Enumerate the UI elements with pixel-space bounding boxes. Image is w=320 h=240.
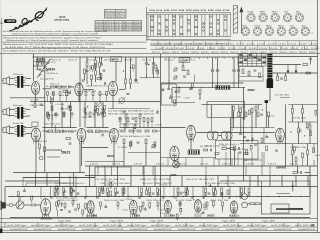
capacitor C5 (105, 82, 106, 85)
junction avc25 (87, 106, 88, 107)
wire tube pin stub (131, 213, 133, 217)
chart column 5 line b (182, 14, 184, 36)
junction heater (65, 196, 66, 197)
resistor lv2 (64, 203, 66, 207)
chart column 4 point 2 (173, 19, 175, 21)
wire y152 segment (128, 152, 160, 154)
svg-text:6063: 6063 (171, 173, 177, 177)
junction avc23 (98, 108, 99, 109)
wire tube pin stub mid (188, 138, 190, 142)
resistor R67 (123, 189, 125, 194)
svg-text:0,5-12pF 6k: 0,5-12pF 6k (40, 79, 54, 81)
svg-text:Zwischenfreq: Zwischenfreq (105, 13, 115, 16)
svg-text:Ger.Nr 2035 Type: Ger.Nr 2035 Type (55, 224, 74, 227)
wire bot10 mid lead (157, 193, 159, 194)
table tubes divider 2 (114, 21, 116, 31)
wire R52 down (255, 111, 257, 128)
chart column 9 point 3 (210, 23, 212, 25)
resistor osc3 (94, 63, 96, 68)
wire botl6 (179, 206, 181, 210)
chart column 1 point 2 (151, 19, 153, 21)
capacitor C31 (260, 114, 263, 115)
svg-text:Schaltbild Klein-Super 43 W S: Schaltbild Klein-Super 43 W Stand Oktobe… (3, 50, 112, 53)
capacitor C15 (97, 114, 100, 115)
resistor R27 (147, 118, 149, 123)
wire R36 down (251, 113, 253, 133)
wire rdet7 lead (191, 88, 193, 90)
svg-text:Schaltbild 43W 10.49: Schaltbild 43W 10.49 (202, 228, 219, 231)
wire if25 lead (134, 130, 136, 132)
capacitor lv1 (60, 210, 63, 211)
chart column 11 line a (223, 14, 225, 36)
resistor R23 (89, 112, 91, 117)
wire V5 cathode drop (81, 142, 83, 166)
svg-text:0,1 50k 300: 0,1 50k 300 (125, 199, 132, 201)
resistor R13 (70, 106, 72, 111)
wire J2 to T2 a (9, 109, 14, 111)
svg-text:30k 100: 30k 100 (82, 117, 92, 119)
wire R67 lead (123, 187, 125, 190)
wire bot13 bottom lead (205, 195, 207, 197)
wire right rail y104 (289, 103, 318, 105)
resistor R38 (261, 138, 263, 143)
capacitor C9 (61, 108, 64, 109)
capacitor bot11b (177, 194, 180, 195)
wire stub fm4 (32, 62, 34, 69)
wire R63 down (57, 193, 59, 196)
wire midcol drop 5 (213, 158, 215, 167)
wire tube pin stub (196, 213, 198, 217)
wire vertical bus x80 lower (79, 143, 81, 173)
bottom band divider 12 (283, 223, 285, 227)
chart column 11 point 1 (225, 16, 227, 18)
wire stub eye5 (257, 104, 259, 111)
wire bot2 bottom lead (63, 195, 65, 197)
wire tube top lead 10 (202, 187, 204, 199)
chart column 6 line a (186, 14, 188, 36)
tube electrode hatch (112, 138, 116, 140)
band tick b (292, 46, 294, 50)
trimmer C19 (151, 144, 156, 149)
wire botl7 (206, 206, 208, 210)
wire top rail tick (198, 57, 200, 59)
svg-text:UKW 87,5: UKW 87,5 (44, 62, 56, 64)
wire inter-rail link 1 (97, 166, 99, 176)
wire top HT rail (33, 56, 267, 58)
chart top rule 2 (147, 13, 231, 15)
svg-text:12 0,45: 12 0,45 (238, 48, 246, 50)
wire ratio drop b (226, 139, 228, 142)
svg-text:12 0,45: 12 0,45 (165, 48, 173, 50)
chart column 7 line b (197, 14, 199, 36)
wire tube pin stub (230, 213, 232, 217)
wire x238 drop (238, 104, 240, 112)
wire R10 bottom (130, 84, 132, 89)
resistor R20 (96, 130, 101, 132)
wire FM det rail y88 (172, 87, 245, 89)
capacitor m1 (47, 113, 50, 114)
resistor R32 (187, 70, 189, 75)
wire tube pin stub mid (35, 140, 37, 144)
wire tube pin stub (48, 213, 50, 217)
tube socket diagram EAF42 row2 (265, 27, 273, 35)
wire tube pin stub mid (190, 138, 192, 142)
svg-text:EC14: EC14 (157, 9, 163, 12)
svg-text:0,1 50k 465 kHz 12k: 0,1 50k 465 kHz 12k (205, 183, 235, 185)
capacitor C14 (54, 114, 57, 115)
svg-text:0,1 50k 300: 0,1 50k 300 (267, 116, 274, 118)
chart column 8 line b (204, 14, 206, 36)
svg-text:12 0,45: 12 0,45 (207, 48, 215, 50)
svg-text:464 0,5 12k 100 2M: 464 0,5 12k 100 2M (140, 179, 171, 181)
wire tube pin stub (89, 213, 91, 217)
resistor vol2 (17, 192, 19, 196)
svg-text:6,3V 215: 6,3V 215 (112, 164, 120, 166)
resistor R36 (251, 108, 253, 113)
svg-text:Schaltbild 43W 10.49: Schaltbild 43W 10.49 (130, 228, 147, 231)
svg-text:25k 50 1M 0,1: 25k 50 1M 0,1 (219, 144, 239, 146)
chart column 6 line b (189, 14, 191, 36)
svg-text:Type 43W: Type 43W (110, 221, 123, 223)
junction heater (215, 196, 216, 197)
svg-text:0,5 8k 100: 0,5 8k 100 (292, 118, 306, 120)
wire heater tap #10 (240, 197, 242, 200)
resistor m22 (127, 118, 129, 122)
svg-text:ECH42: ECH42 (254, 25, 260, 27)
wire tube pin stub (133, 213, 135, 217)
wire m1 down (47, 114, 49, 118)
junction bfo2 (148, 64, 149, 65)
svg-text:Ger.Nr 2035 Type: Ger.Nr 2035 Type (247, 224, 266, 227)
resistor osc4 (100, 74, 102, 78)
wire P1 out (24, 204, 31, 206)
wire R76 to V10 (35, 204, 41, 206)
tube electrode hatch (89, 210, 93, 212)
svg-text:4,3 215: 4,3 215 (267, 44, 275, 46)
junction heater (97, 196, 98, 197)
wire botl3 (117, 206, 119, 210)
wire V6 cathode drop (113, 142, 115, 166)
svg-text:Schaltbild 43W 10.49: Schaltbild 43W 10.49 (34, 228, 51, 231)
capacitor bot9b (148, 194, 151, 195)
wire bo56 lead (204, 209, 206, 211)
svg-text:EL41: EL41 (284, 12, 288, 14)
wire if28 lead (154, 147, 156, 149)
wire R86 down (39, 149, 41, 155)
wire tube pin stub mid (81, 140, 83, 144)
coupling cap C45 (9, 203, 13, 207)
wire R25 lead down (125, 119, 127, 128)
wire R6-R7 link (95, 65, 97, 71)
svg-text:25k 464 0,2: 25k 464 0,2 (44, 124, 60, 126)
band tick a (251, 41, 253, 45)
wire J3 to T3 b (9, 133, 14, 135)
capacitor ifa3 (134, 80, 137, 81)
schematic top rule (0, 53, 320, 55)
filter block striped (216, 85, 231, 89)
wire C43 down (292, 187, 294, 192)
resistor r1x3 (59, 92, 61, 96)
wire heater tap #2 (84, 197, 86, 200)
wire m6 down (93, 114, 95, 118)
bottom band divider 1 (4, 223, 6, 227)
wire drop y101-127 #6 (102, 102, 104, 128)
header rule 1 (2, 35, 147, 37)
svg-text:EC94: EC94 (215, 9, 221, 12)
wire vertical bus x45 (44, 57, 46, 173)
wire heater rail y196 (8, 196, 310, 198)
svg-text:Ger.Nr 2035 Type: Ger.Nr 2035 Type (79, 224, 98, 227)
wire x314 drop 2 (313, 160, 315, 166)
resistor R52 (255, 106, 257, 111)
resistor R75 (293, 172, 298, 174)
wire heater tap #5 (162, 197, 164, 200)
wire C26 to top rail (238, 57, 240, 69)
svg-text:6063: 6063 (92, 215, 98, 217)
chart left border inner (147, 13, 149, 41)
svg-text:0,1 50k 300: 0,1 50k 300 (36, 69, 41, 71)
chart column 4 line a (171, 14, 173, 36)
aerial jack J3 (3, 126, 9, 134)
wire V3 cathode drop (112, 96, 114, 109)
shield box label (111, 57, 122, 62)
capacitor lv2 (68, 211, 71, 212)
resistor R22 (63, 112, 65, 117)
svg-text:12 0,45: 12 0,45 (186, 48, 194, 50)
table tubes box (95, 21, 142, 31)
resistor R40 (230, 148, 235, 150)
wire r1x7 down (99, 95, 101, 101)
wire inter-rail link 6 (245, 166, 247, 176)
wire x5 drop (4, 187, 6, 204)
wire tube pin stub (198, 213, 200, 217)
band tick a (275, 41, 277, 45)
wire R44 down (309, 130, 311, 144)
wire bo22 lead (105, 204, 107, 206)
svg-text:2M 0,1 8k: 2M 0,1 8k (30, 105, 44, 107)
resistor bo23 (110, 182, 112, 187)
capacitor rdet1 (189, 89, 192, 90)
wire bot9 mid lead (149, 193, 151, 194)
svg-text:Schaltbild 43W 10.49: Schaltbild 43W 10.49 (10, 228, 27, 231)
resistor R1 (36, 60, 38, 65)
wire bo36 lead (144, 207, 146, 209)
svg-text:200 0,1 5k: 200 0,1 5k (104, 59, 113, 61)
bottom band rule 1 (0, 222, 317, 224)
resistor bo14 (56, 186, 58, 190)
wire tube pin stub (170, 213, 172, 217)
resistor botl2 (100, 202, 102, 206)
resistor R12 (51, 106, 53, 111)
resistor if25 (134, 125, 136, 129)
resistor R43 (302, 109, 304, 114)
resistor R51 (249, 110, 251, 115)
capacitor bo54 (202, 213, 205, 214)
wire bo41 lead (180, 213, 182, 215)
wire tube top lead 8 (173, 187, 175, 199)
capacitor if21 (123, 112, 126, 113)
capacitor C50 (86, 71, 89, 72)
wire R33 down (199, 94, 201, 99)
junction bo13 (62, 203, 63, 204)
switch contact 4 (263, 57, 266, 58)
capacitor bot2b (62, 194, 65, 195)
svg-text:Schaltbild 43W 10.49: Schaltbild 43W 10.49 (250, 228, 267, 231)
wire y147 segment (82, 147, 108, 149)
capacitor C35 (280, 78, 283, 79)
wire r1x5 down (85, 95, 87, 101)
wire C34 lead (310, 57, 312, 59)
wire bfo4 lead (157, 75, 159, 77)
junction eye2 (245, 160, 246, 161)
wire tube pin stub (166, 213, 168, 217)
wire mx2 lead (51, 103, 53, 105)
svg-text:0,1 50k 300: 0,1 50k 300 (122, 209, 128, 211)
svg-text:Schaltbild 43W 10.49: Schaltbild 43W 10.49 (106, 228, 123, 231)
wire rail y181 left (5, 180, 60, 182)
svg-text:0,1 4k: 0,1 4k (31, 99, 39, 101)
wire drop to y186 #10 (154, 166, 156, 187)
capacitor C1 (39, 69, 42, 70)
tube socket diagram AZ41 row2 (301, 27, 309, 35)
resistor bot4 (99, 188, 101, 193)
wire R27 lead down (147, 123, 149, 128)
wire bot3 bottom lead (71, 195, 73, 197)
wire J3 to T3 a (9, 127, 14, 129)
dial pointer arrow (240, 8, 243, 34)
svg-text:12 0,45: 12 0,45 (176, 48, 184, 50)
wire top rail tick (207, 57, 209, 59)
tube socket diagram ECH42 row1 (247, 13, 255, 21)
resistor r1x5 (85, 92, 87, 96)
resistor bo17 (82, 210, 84, 214)
wire tube pin stub (93, 213, 95, 217)
wire bot11 bottom lead (177, 195, 179, 197)
wire R47 lead (307, 144, 309, 150)
band tick a (263, 41, 265, 45)
resistor bfo1 (155, 65, 157, 69)
chart column 6 point 3 (188, 23, 190, 25)
junction rdet4 (184, 70, 185, 71)
svg-text:AZ41: AZ41 (302, 24, 306, 27)
junction heater (279, 196, 280, 197)
wire tube top lead 12 (239, 187, 241, 199)
wire rail y181 right (220, 180, 261, 182)
resistor R28 (123, 139, 125, 144)
band tick b (245, 46, 247, 50)
band tick b (233, 46, 235, 50)
resistor R54 (234, 146, 236, 151)
resistor avc24 (103, 105, 105, 109)
chart column 7 line a (194, 14, 196, 36)
wire R61 lead (277, 73, 279, 76)
capacitor avc3 (68, 107, 71, 108)
capacitor mbx3 (167, 88, 170, 89)
wire box to ratio L (211, 117, 213, 131)
tube V13 IF bottom (164, 200, 171, 212)
logo badge RADIO (4, 19, 16, 23)
chart top rule (147, 12, 231, 14)
svg-text:200 0,1 5k: 200 0,1 5k (68, 59, 77, 61)
svg-text:Bei Reparaturen bitte stets di: Bei Reparaturen bitte stets die Fabrikat… (3, 30, 107, 33)
wire ifa3 lead (135, 78, 137, 80)
tube electrode hatch (196, 209, 200, 211)
svg-text:464 kHz 25k 100 0,1 50 12k 1M: 464 kHz 25k 100 0,1 50 12k 1M 0,05 (108, 114, 154, 116)
wire if24 lead (129, 147, 131, 149)
capacitor bo36 (144, 209, 147, 210)
resistor R50 (238, 112, 240, 117)
wire R53 down (268, 117, 270, 128)
junction x70 rail (69, 186, 70, 187)
svg-text:Klein-Super: Klein-Super (54, 18, 69, 22)
svg-text:0,1 300 50k 25 1M 468kHz 0,05: 0,1 300 50k 25 1M 468kHz 0,05 12k (108, 111, 154, 113)
wire R65 lead (102, 187, 104, 190)
resistor lad9 (302, 153, 304, 158)
chart column 4 point 5 (173, 30, 175, 32)
capacitor if23 (156, 112, 159, 113)
chart column 9 point 6 (210, 33, 212, 35)
svg-text:100 0,1 50k 464: 100 0,1 50k 464 (120, 124, 138, 126)
wire bo33 lead (140, 211, 142, 213)
capacitor bot14b (212, 194, 215, 195)
wire botl5 (157, 206, 159, 210)
wire tube pin stub mid (33, 140, 35, 144)
wire drop y101-127 #2 (61, 102, 63, 128)
wire eye9 lead (252, 137, 254, 139)
resistor r2x2 (129, 130, 133, 132)
wire bot12 bottom lead (185, 195, 187, 197)
wire R70 lead (187, 187, 189, 191)
svg-text:100 MHz 2x: 100 MHz 2x (46, 73, 58, 75)
svg-text:4,3 215: 4,3 215 (299, 44, 307, 46)
switch contact 7 (239, 62, 242, 63)
wire feedback rail y177 (23, 177, 95, 179)
resistor R33 (199, 90, 201, 95)
wire lad2 lead (294, 152, 296, 154)
svg-text:0,1 50k 300: 0,1 50k 300 (155, 125, 162, 127)
junction heater (300, 196, 301, 197)
band tick a (157, 41, 159, 45)
resistor R88 (204, 149, 208, 151)
wire tube top lead 9 (192, 187, 194, 199)
wire bot12 mid lead (185, 193, 187, 194)
wire heater tap #6 (175, 197, 177, 200)
wire tube pin stub (87, 213, 89, 217)
svg-text:0,05 10k: 0,05 10k (176, 200, 192, 202)
svg-text:Type 43W: Type 43W (262, 221, 275, 223)
svg-text:EL41 Nf: EL41 Nf (115, 22, 124, 24)
svg-text:Ger.Nr 2035 Type: Ger.Nr 2035 Type (31, 224, 50, 227)
wire vertical bus x243 (243, 88, 245, 181)
svg-text:EAF42: EAF42 (278, 24, 284, 27)
wire C34 down (310, 60, 312, 65)
resistor R69 (159, 190, 161, 195)
tube electrode hatch (44, 210, 48, 212)
capacitor C13 (102, 134, 103, 137)
wire vertical x169 (168, 57, 170, 83)
pickup jack J4 (1, 201, 6, 210)
wire V2 anode out (84, 89, 94, 91)
chart column 10 line b (219, 14, 221, 36)
wire drop right #11 (307, 176, 309, 187)
band rule right 3 (151, 49, 318, 51)
wire bot2 mid lead (63, 193, 65, 194)
wire V8 to shield (174, 160, 176, 163)
svg-text:Schaltbild 43W 10.49: Schaltbild 43W 10.49 (178, 228, 195, 231)
chart column 9 line a (208, 14, 210, 36)
svg-text:UKW Dipol: UKW Dipol (13, 74, 24, 76)
junction ifa1 (130, 67, 131, 68)
